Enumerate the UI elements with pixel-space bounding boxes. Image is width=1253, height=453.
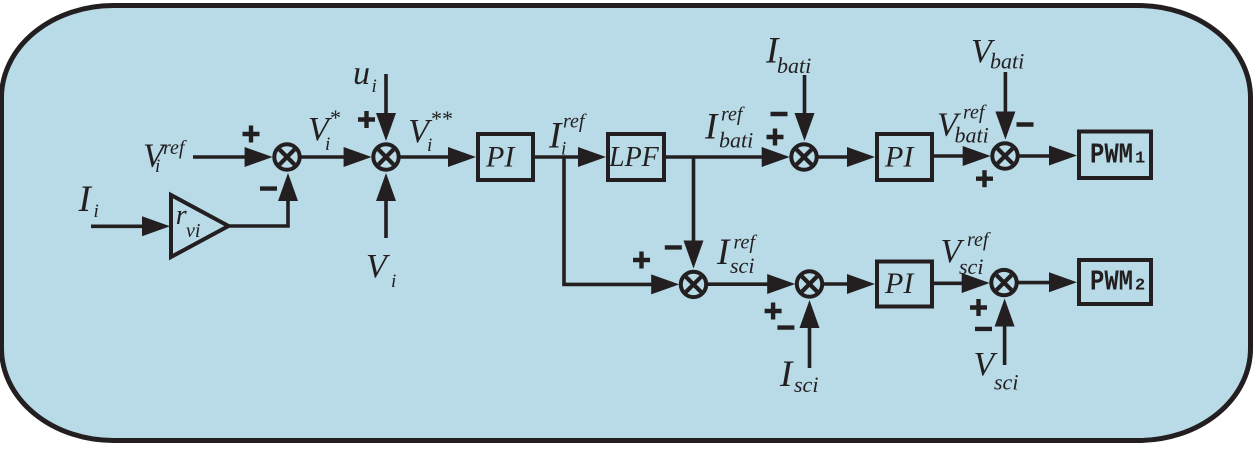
wire Ibati down to S3 [803,75,807,116]
arrow into rvi [142,216,170,236]
svg-text:sci: sci [730,253,754,278]
arrow into PI2 [847,147,875,167]
LPF block U2 [608,134,664,180]
node Vi_ref label [143,137,187,177]
svg-text:i: i [155,156,160,177]
arrow down into S3 top [795,113,815,141]
svg-text:i: i [325,134,330,155]
plus sign at S7 bottom input [970,299,987,316]
arrow into PI1 [448,147,476,167]
summing junction S1 [274,144,299,169]
wire Isci up to S6 [808,325,812,368]
svg-text:ref: ref [963,102,987,124]
svg-text:vi: vi [186,220,200,242]
wire branch from Ii_ref node down and right to S5 [564,157,654,284]
wire S1 to S2 [299,155,346,159]
summing junction S3 [791,144,816,169]
svg-text:ref: ref [967,229,991,251]
arrow into PWM2 [1049,272,1077,292]
arrow down into S5 top [684,241,704,269]
arrow into S6 [767,274,795,294]
node Ii label [78,179,99,222]
node ui label [353,55,377,97]
svg-text:sci: sci [959,254,983,279]
minus sign at S3 top input [771,112,788,116]
wire S4 to PWM1 [1017,154,1052,158]
arrow up into S1 bottom [278,173,298,201]
wire PI3 to S7 [934,281,965,285]
svg-text:i: i [94,201,99,222]
wire ui down to S2 [384,74,388,116]
wire Ii to amp rvi [91,225,145,229]
svg-text:ref: ref [163,137,187,159]
arrow into S3 [762,147,790,167]
wire Vsci up to S7 [1003,323,1007,365]
svg-text:i: i [427,135,432,156]
plus sign at S3 left input [767,129,784,146]
node Vbati label [971,33,1024,74]
wire Vi_ref to sum S1 [193,155,248,159]
svg-text:PWM: PWM [1090,139,1133,172]
summing junction S6 [797,271,822,296]
plus sign at S6 bottom input [765,303,782,320]
svg-text:i: i [561,139,566,160]
arrow into S5 left [651,274,679,294]
summing junction S2 [373,144,398,169]
PI block U3 [877,134,932,180]
PI block U1 [478,134,533,180]
svg-text:2: 2 [1135,277,1145,296]
svg-text:*: * [329,105,340,130]
svg-text:I: I [78,179,93,220]
node Ibati_ref label [704,104,753,153]
svg-text:ref: ref [721,104,745,126]
svg-text:sci: sci [994,370,1018,395]
minus sign at S5 top input [665,245,682,249]
wire Vi up to S2 [384,198,388,238]
arrow into S7 [962,273,990,293]
arrow down into S2 top [376,113,396,141]
node Vsci label [974,346,1019,395]
node Vi_star label [308,105,340,155]
node Vbati_ref label [937,102,989,148]
node Vi_star_star label [408,106,452,156]
amplifier rvi [171,195,229,257]
wire LPF to S3 [666,155,765,159]
summing junction S4 [992,143,1017,168]
svg-text:**: ** [430,106,452,131]
svg-text:i: i [372,76,377,97]
svg-text:1: 1 [1135,150,1145,169]
node Vsci_ref label [941,229,991,279]
svg-text:bati: bati [955,123,989,148]
arrow into PI3 [847,274,875,294]
wire Vbati down to S4 [1004,72,1008,114]
wire PI2 to S4 [934,154,966,158]
PWM1 block [1079,132,1151,179]
node Vi label [366,248,396,292]
svg-text:bati: bati [719,128,753,153]
wire S7 to PWM2 [1016,281,1052,285]
svg-text:ref: ref [734,232,758,254]
svg-text:bati: bati [990,49,1024,74]
plus sign at S4 left input [976,170,993,187]
node Ibati label [765,31,811,79]
wire rvi output to S1 (right then up) [229,198,289,226]
svg-text:I: I [779,354,794,395]
arrow up into S7 bottom [995,299,1015,327]
svg-text:PI: PI [485,141,516,174]
plus sign at S2 top input [358,111,375,128]
svg-text:I: I [704,107,719,148]
arrow down into S4 top [995,112,1015,140]
minus sign at S4 top input [1017,122,1034,126]
PI block U4 [877,262,932,307]
plus sign at S5 left input [633,252,650,269]
arrow up into S2 bottom [376,173,396,201]
svg-text:i: i [391,271,396,292]
wire branch from LPF output down to S5 [692,157,696,243]
node Isci label [779,354,818,397]
svg-text:PI: PI [884,267,915,300]
svg-text:sci: sci [794,372,818,397]
svg-text:PWM: PWM [1090,266,1133,299]
wire S6 to PI3 [822,282,850,286]
wire S3 to PI2 [816,155,850,159]
minus sign at S7 bottom input [975,327,992,331]
arrow into S2 [344,147,372,167]
wire S5 to S6 [705,282,770,286]
wire PI1 to LPF [535,155,581,159]
svg-text:u: u [353,55,370,92]
svg-text:LPF: LPF [608,142,660,173]
minus sign at S1 lower input [260,186,277,190]
node Ii_ref label [548,111,587,160]
svg-text:I: I [716,232,731,273]
minus sign at S6 bottom input [777,325,794,329]
arrow into LPF [578,147,606,167]
summing junction S7 [991,270,1016,295]
summing junction S5 [681,272,706,297]
node Isci_ref label [716,232,757,279]
arrow into PWM1 [1049,146,1077,166]
svg-text:ref: ref [563,111,587,133]
svg-text:PI: PI [884,141,915,174]
plus sign at S1 input [243,126,260,143]
wire S2 to PI1 [398,155,451,159]
PWM2 block [1079,260,1151,304]
arrow into S1 [245,147,273,167]
arrow up into S6 bottom [800,300,820,328]
arrow into S4 [963,146,991,166]
svg-text:bati: bati [777,53,811,78]
